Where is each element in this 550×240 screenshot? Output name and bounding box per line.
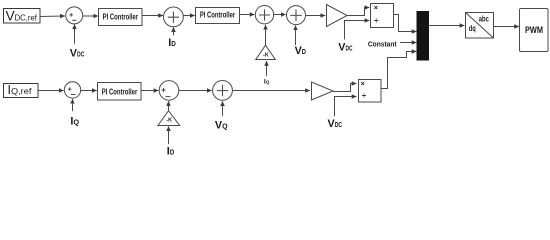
svg-text:dq: dq — [469, 24, 476, 33]
svg-text:IQ: IQ — [264, 79, 270, 86]
svg-text:PI Controller: PI Controller — [200, 11, 235, 20]
wire divide D2 output staircase to mux — [381, 52, 416, 89]
svg-text:÷: ÷ — [362, 91, 367, 100]
summing junction S7 — [213, 81, 233, 101]
PI controller 2 — [196, 8, 240, 24]
svg-text:ID: ID — [167, 146, 175, 157]
gain G2 (bottom) — [312, 82, 334, 100]
wire abc/dq to PWM — [494, 26, 519, 28]
wire PI3 to sum S6 — [141, 90, 158, 92]
svg-text:Constant: Constant — [368, 40, 397, 49]
wire S4 to gain G1 — [306, 15, 326, 17]
wire VDC to divide D2 divisor port — [335, 97, 357, 117]
abc/dq transform block — [466, 13, 494, 39]
wire G1 tip to divide D1 x-port — [347, 8, 369, 16]
wire S1 to PI controller 1 — [83, 15, 98, 17]
svg-text:IQ: IQ — [70, 116, 79, 128]
PWM block — [520, 9, 549, 52]
wire IQref to sum S5 — [38, 90, 64, 92]
wire IQ up to S5 — [72, 99, 74, 111]
wire PI1 to sum S2 — [142, 15, 163, 17]
svg-text:VD: VD — [295, 45, 307, 57]
summing junction S4 — [287, 6, 306, 25]
input reference block IQ,ref — [4, 84, 39, 98]
divide block D2 — [359, 80, 382, 103]
svg-text:VDC: VDC — [328, 118, 343, 130]
wire gain K-bottom apex to S6 — [168, 101, 170, 111]
svg-text:-K: -K — [166, 117, 172, 123]
svg-text:×: × — [374, 3, 379, 12]
svg-text:-K: -K — [263, 52, 269, 58]
svg-text:PWM: PWM — [525, 25, 543, 35]
wire VQ up to S7 — [222, 101, 224, 116]
wire S5 to PI controller 3 — [81, 90, 97, 92]
gain -K bottom — [158, 111, 180, 126]
wire IQ tag to gain -K top — [266, 61, 268, 76]
wire PI2 to sum S3 — [240, 14, 255, 16]
wire S3 to sum S4 — [274, 14, 286, 16]
wire S2 to PI controller 2 — [183, 15, 195, 17]
wire gain K-top apex to S3 — [265, 25, 267, 45]
wire S7 to gain G2 — [232, 90, 310, 92]
svg-text:IQ,ref: IQ,ref — [8, 83, 33, 97]
PI controller 3 — [98, 83, 142, 101]
svg-text:×: × — [361, 81, 365, 88]
PI controller 1 — [99, 9, 143, 26]
wire VDCref to sum S1 — [40, 15, 65, 18]
wire Constant to mux — [400, 42, 416, 44]
svg-text:VDC,ref: VDC,ref — [6, 8, 38, 23]
svg-text:PI Controller: PI Controller — [103, 12, 139, 21]
wire S6 to sum S7 — [179, 90, 212, 92]
svg-text:VDC: VDC — [338, 41, 353, 53]
gain G1 (top) — [327, 5, 348, 27]
summing junction S6 — [159, 81, 179, 101]
svg-text:VDC: VDC — [70, 48, 85, 60]
wire mux to abc/dq — [429, 25, 465, 27]
wire VD up to S4 — [295, 26, 297, 46]
wire VDC up to S1 — [74, 24, 76, 43]
wire ID up to S2 — [173, 27, 175, 35]
svg-text:÷: ÷ — [374, 15, 379, 25]
svg-text:abc: abc — [479, 15, 489, 24]
svg-text:VQ: VQ — [215, 120, 228, 132]
wire ID to gain -K bottom — [168, 126, 170, 144]
wire VDC to divide D1 divisor port — [345, 21, 370, 40]
wire D1 output to mux — [394, 15, 417, 32]
svg-text:PI Controller: PI Controller — [102, 87, 138, 96]
summing junction S5 — [64, 82, 80, 98]
gain -K top — [256, 45, 275, 59]
wire G2 tip to divide D2 x-port — [333, 84, 356, 92]
summing junction S2 — [164, 7, 184, 27]
summing junction S3 — [255, 6, 273, 24]
svg-text:ID: ID — [168, 37, 176, 49]
input reference block VDC,ref — [4, 9, 41, 24]
divide block D1 — [371, 4, 394, 28]
mux block — [417, 12, 429, 61]
summing junction S1 — [66, 7, 83, 24]
